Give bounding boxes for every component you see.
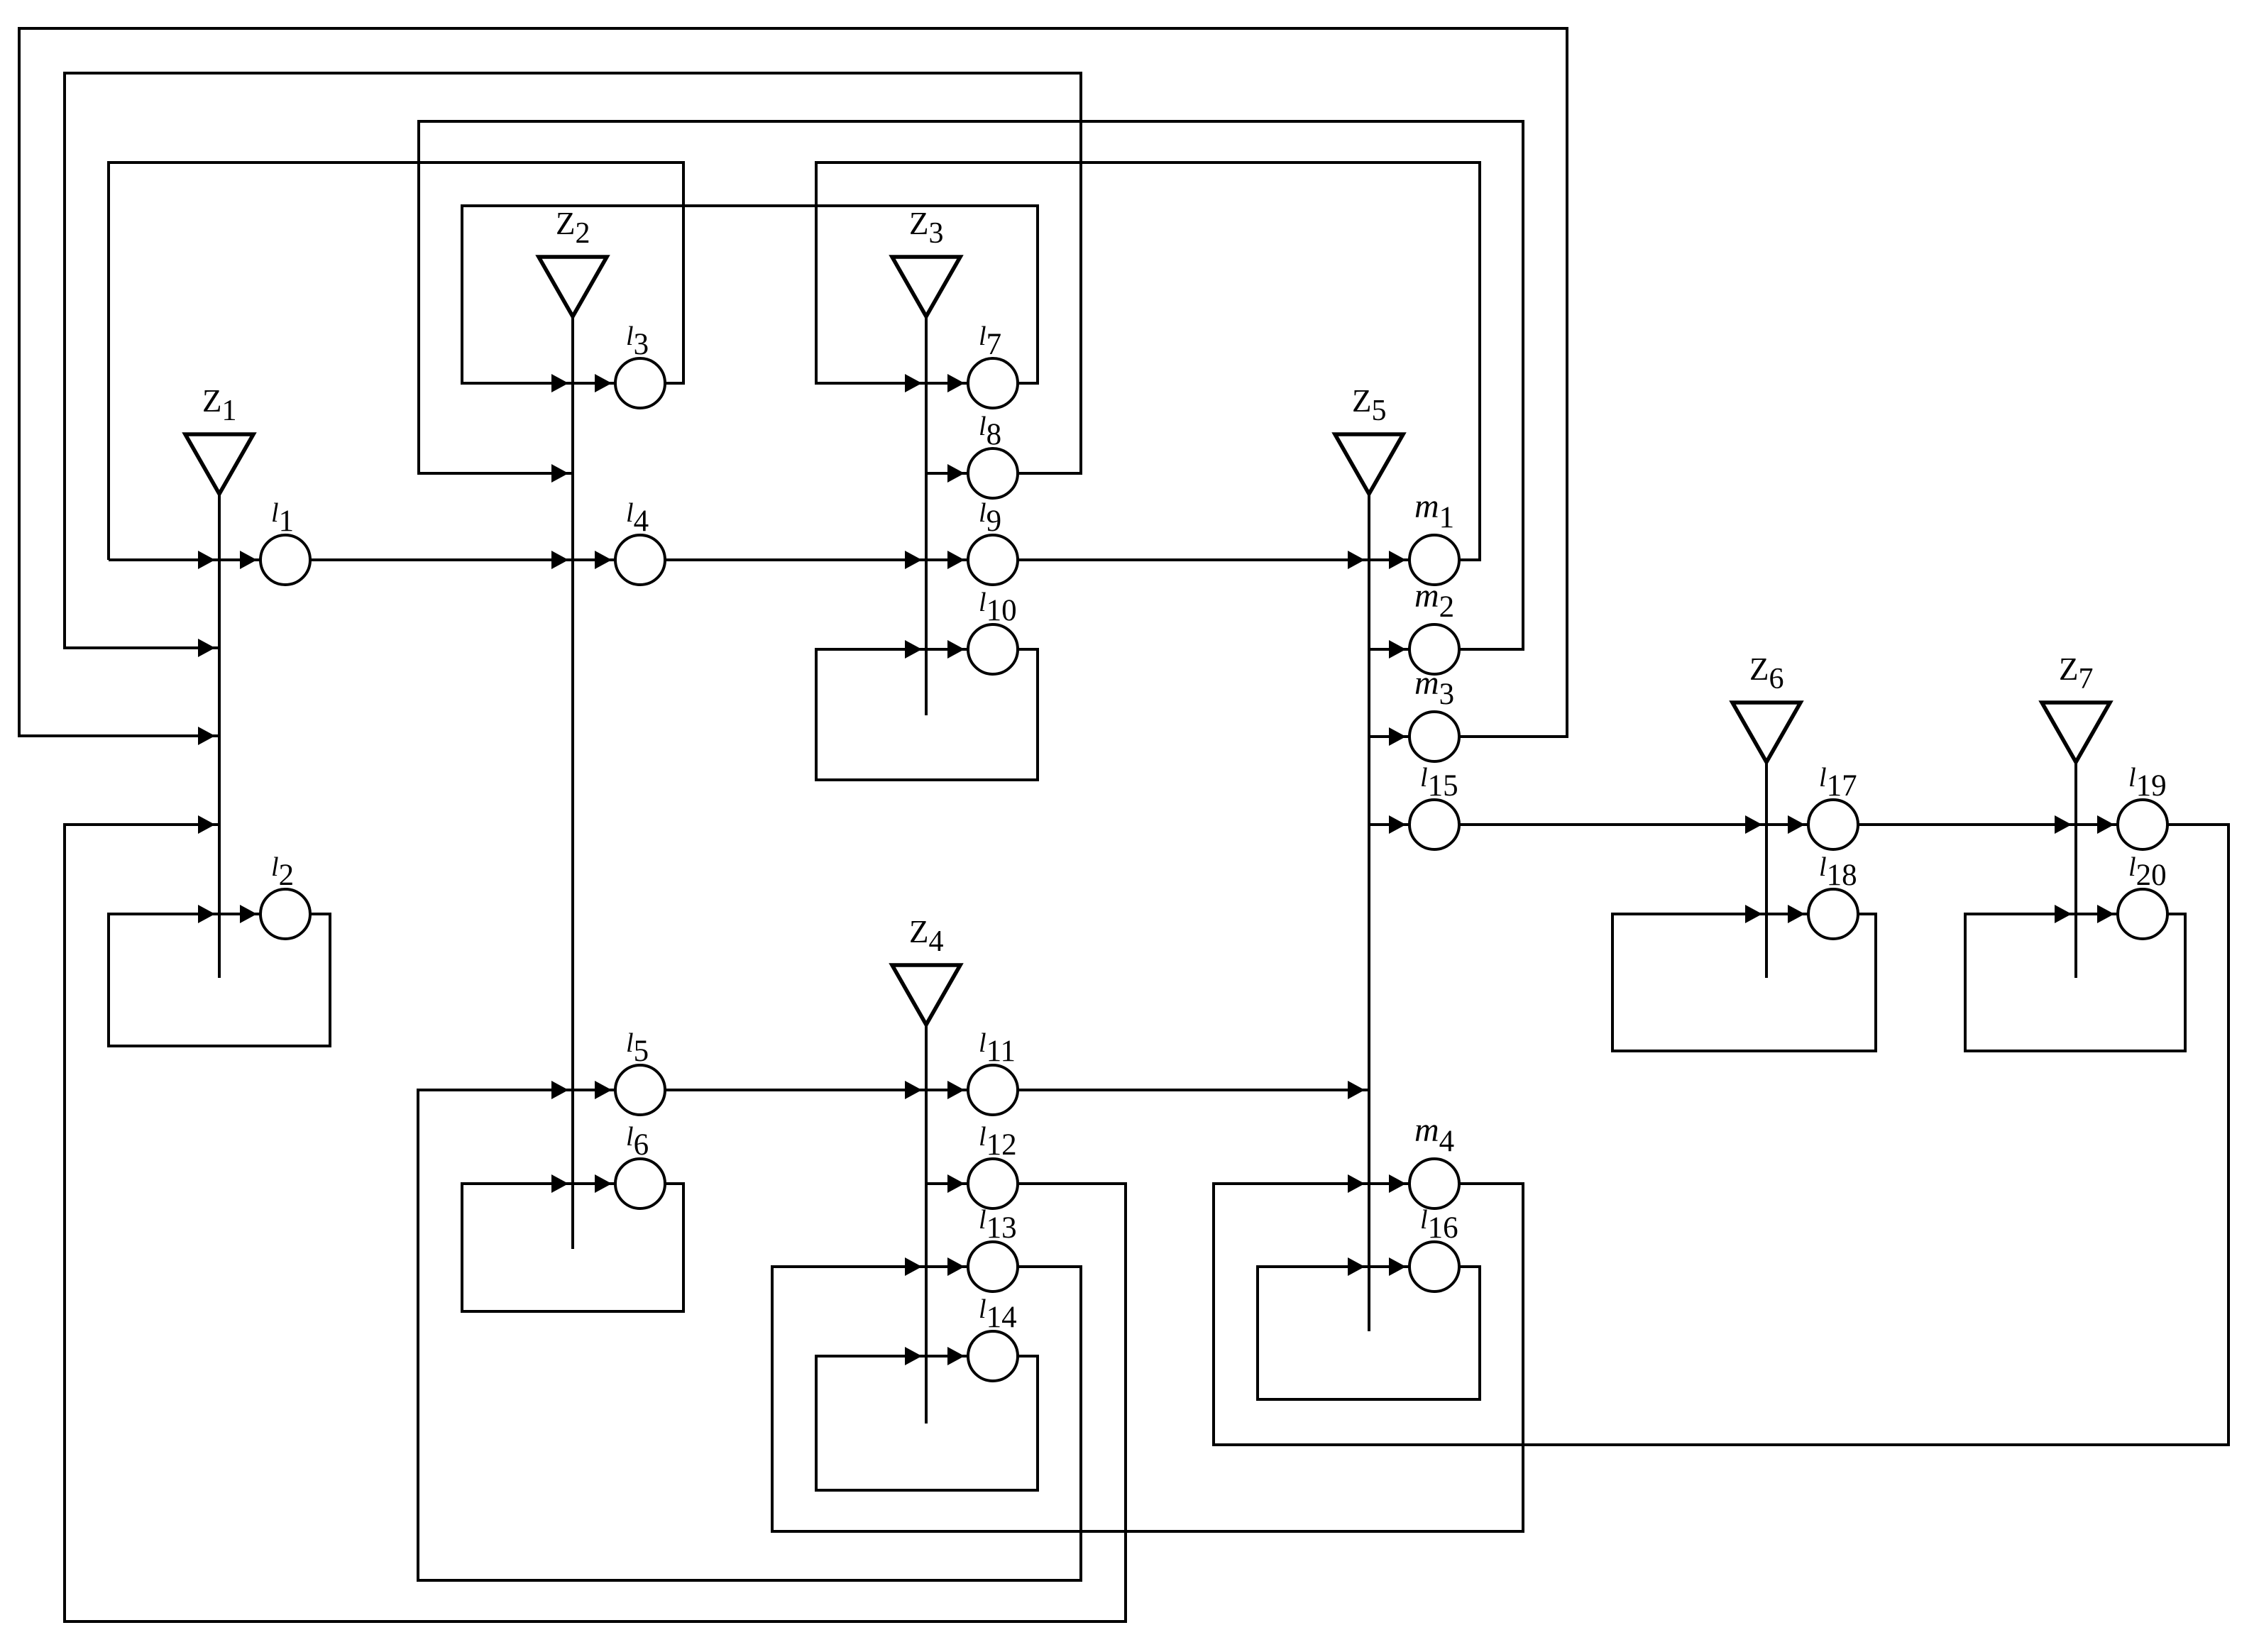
wire m4 to l13 feedback [772, 1184, 1523, 1531]
node m1 [1409, 535, 1459, 585]
label l3 [626, 321, 649, 361]
wire m2 to Z2 stem feedback [419, 121, 1523, 649]
wire l16 self-loop box [1258, 1257, 1480, 1399]
label Z2 [556, 206, 590, 250]
label Z4 [909, 914, 944, 958]
wire l3 to l1 feedback [109, 163, 683, 560]
antenna Z3 [892, 257, 960, 715]
wire l2 self-loop box [109, 905, 330, 1046]
node l16 [1409, 1242, 1459, 1292]
wire l6 self-loop box [462, 1174, 683, 1311]
wire l14 self-loop box [816, 1347, 1038, 1490]
label l16 [1420, 1205, 1458, 1245]
wire Z4 stem to l12 [926, 1174, 968, 1193]
node l7 [968, 358, 1018, 408]
antenna Z2 [539, 257, 607, 1249]
label l20 [2128, 852, 2167, 892]
node m2 [1409, 624, 1459, 674]
wire Z5 stem to m2 [1369, 640, 1409, 659]
node l10 [968, 624, 1018, 674]
label l1 [271, 498, 294, 538]
node l1 [260, 535, 310, 585]
node l2 [260, 889, 310, 939]
label Z7 [2059, 651, 2094, 695]
wire l7 to l3 feedback [462, 206, 1038, 392]
antenna Z4 [892, 965, 960, 1424]
antenna Z1 [185, 434, 253, 978]
label m1 [1414, 488, 1454, 534]
label l17 [1819, 763, 1857, 803]
antenna Z7 [2042, 703, 2110, 978]
wire l18 self-loop box [1612, 905, 1876, 1051]
label l6 [626, 1122, 649, 1162]
node m3 [1409, 712, 1459, 761]
node l12 [968, 1159, 1018, 1208]
node l3 [615, 358, 665, 408]
label Z6 [1749, 651, 1784, 695]
label Z3 [909, 206, 944, 250]
label Z1 [202, 383, 237, 427]
label l5 [626, 1028, 649, 1068]
node l8 [968, 448, 1018, 498]
label l14 [979, 1294, 1017, 1334]
label Z5 [1352, 383, 1387, 427]
label l4 [626, 498, 649, 538]
node m4 [1409, 1159, 1459, 1208]
wire l12 to Z1 stem feedback [65, 815, 1126, 1621]
node l4 [615, 535, 665, 585]
node l14 [968, 1331, 1018, 1381]
node l15 [1409, 800, 1459, 849]
wire main row l1 to m1 [109, 551, 1480, 569]
node l6 [615, 1159, 665, 1208]
wire m1 to l7 feedback [816, 163, 1480, 560]
label l8 [979, 412, 1001, 451]
wire l19 to m4 feedback [1214, 825, 2228, 1445]
node l17 [1808, 800, 1858, 849]
label l10 [979, 588, 1017, 627]
wire l10 self-loop box [816, 640, 1038, 780]
wire Z5 stem to l15 [1369, 815, 1409, 834]
label l15 [1420, 763, 1458, 803]
label l7 [979, 321, 1001, 361]
label l12 [979, 1122, 1017, 1162]
label m4 [1414, 1111, 1454, 1158]
wire l5 to l11 row [665, 1081, 968, 1099]
wire l20 self-loop box [1965, 905, 2185, 1051]
label l11 [979, 1028, 1016, 1068]
node l5 [615, 1065, 665, 1115]
label m3 [1414, 664, 1454, 711]
antenna Z6 [1732, 703, 1801, 978]
node l9 [968, 535, 1018, 585]
label l18 [1819, 852, 1857, 892]
label l13 [979, 1205, 1017, 1245]
node l11 [968, 1065, 1018, 1115]
wire l15 to l19 row [1459, 815, 2118, 834]
label l19 [2128, 763, 2167, 803]
node l19 [2118, 800, 2167, 849]
wire l13 to l5 feedback [418, 1081, 1081, 1580]
antenna Z5 [1335, 434, 1403, 1331]
node l13 [968, 1242, 1018, 1292]
wire l8 to Z1 stem feedback [65, 73, 1081, 657]
label l2 [271, 852, 294, 892]
node l20 [2118, 889, 2167, 939]
node l18 [1808, 889, 1858, 939]
label l9 [979, 498, 1001, 538]
label m2 [1414, 577, 1454, 624]
wire Z3 stem to l8 [926, 464, 968, 483]
wire l11 to Z5 stem [1018, 1081, 1369, 1099]
wire Z5 stem to m3 [1369, 727, 1409, 746]
wire m3 to Z1 stem feedback [19, 28, 1567, 745]
